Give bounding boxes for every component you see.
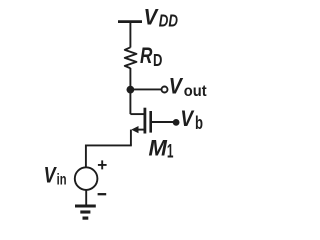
svg-text:M: M <box>149 136 168 161</box>
node Vout junction dot <box>126 86 134 94</box>
wire output node to Vout terminal <box>130 88 161 90</box>
plus sign of Vin <box>98 160 107 169</box>
arrow source of M1 (NMOS arrow) <box>131 126 138 133</box>
power supply VDD bar <box>118 20 142 23</box>
label Vout <box>169 74 207 100</box>
wire drain lead of M1 <box>130 113 144 115</box>
svg-text:V: V <box>144 5 160 30</box>
label VDD <box>144 5 178 31</box>
terminal Vb dot <box>173 119 180 126</box>
voltage source Vin circle <box>75 167 98 190</box>
transistor M1 gate bar <box>149 111 152 133</box>
label Vb <box>180 106 203 133</box>
wire VDD bar to resistor RD top <box>129 22 131 48</box>
wire resistor RD bottom to output node <box>129 68 131 114</box>
resistor RD <box>125 47 137 68</box>
terminal Vout open circle <box>162 87 168 93</box>
wire source lead of M1 <box>137 129 145 131</box>
svg-text:V: V <box>169 74 184 99</box>
svg-text:in: in <box>57 172 67 189</box>
svg-text:D: D <box>153 50 162 70</box>
label M1 <box>149 136 174 163</box>
svg-text:V: V <box>44 162 58 187</box>
label Vin <box>44 162 67 188</box>
svg-text:V: V <box>180 106 195 131</box>
wire gate lead of M1 to Vb <box>152 121 174 123</box>
svg-text:DD: DD <box>159 11 178 31</box>
svg-text:R: R <box>140 43 153 68</box>
wire source horizontal to Vin branch <box>86 144 132 146</box>
label RD <box>140 43 162 70</box>
wire Vin source to ground <box>85 190 87 205</box>
minus sign of Vin <box>98 193 107 195</box>
wire down to Vin source <box>85 145 87 168</box>
svg-text:1: 1 <box>167 142 174 163</box>
transistor M1 channel bar <box>143 108 146 134</box>
ground <box>75 206 96 218</box>
svg-text:b: b <box>195 113 203 133</box>
svg-text:out: out <box>184 83 207 100</box>
wire source bend vertical <box>130 130 132 146</box>
